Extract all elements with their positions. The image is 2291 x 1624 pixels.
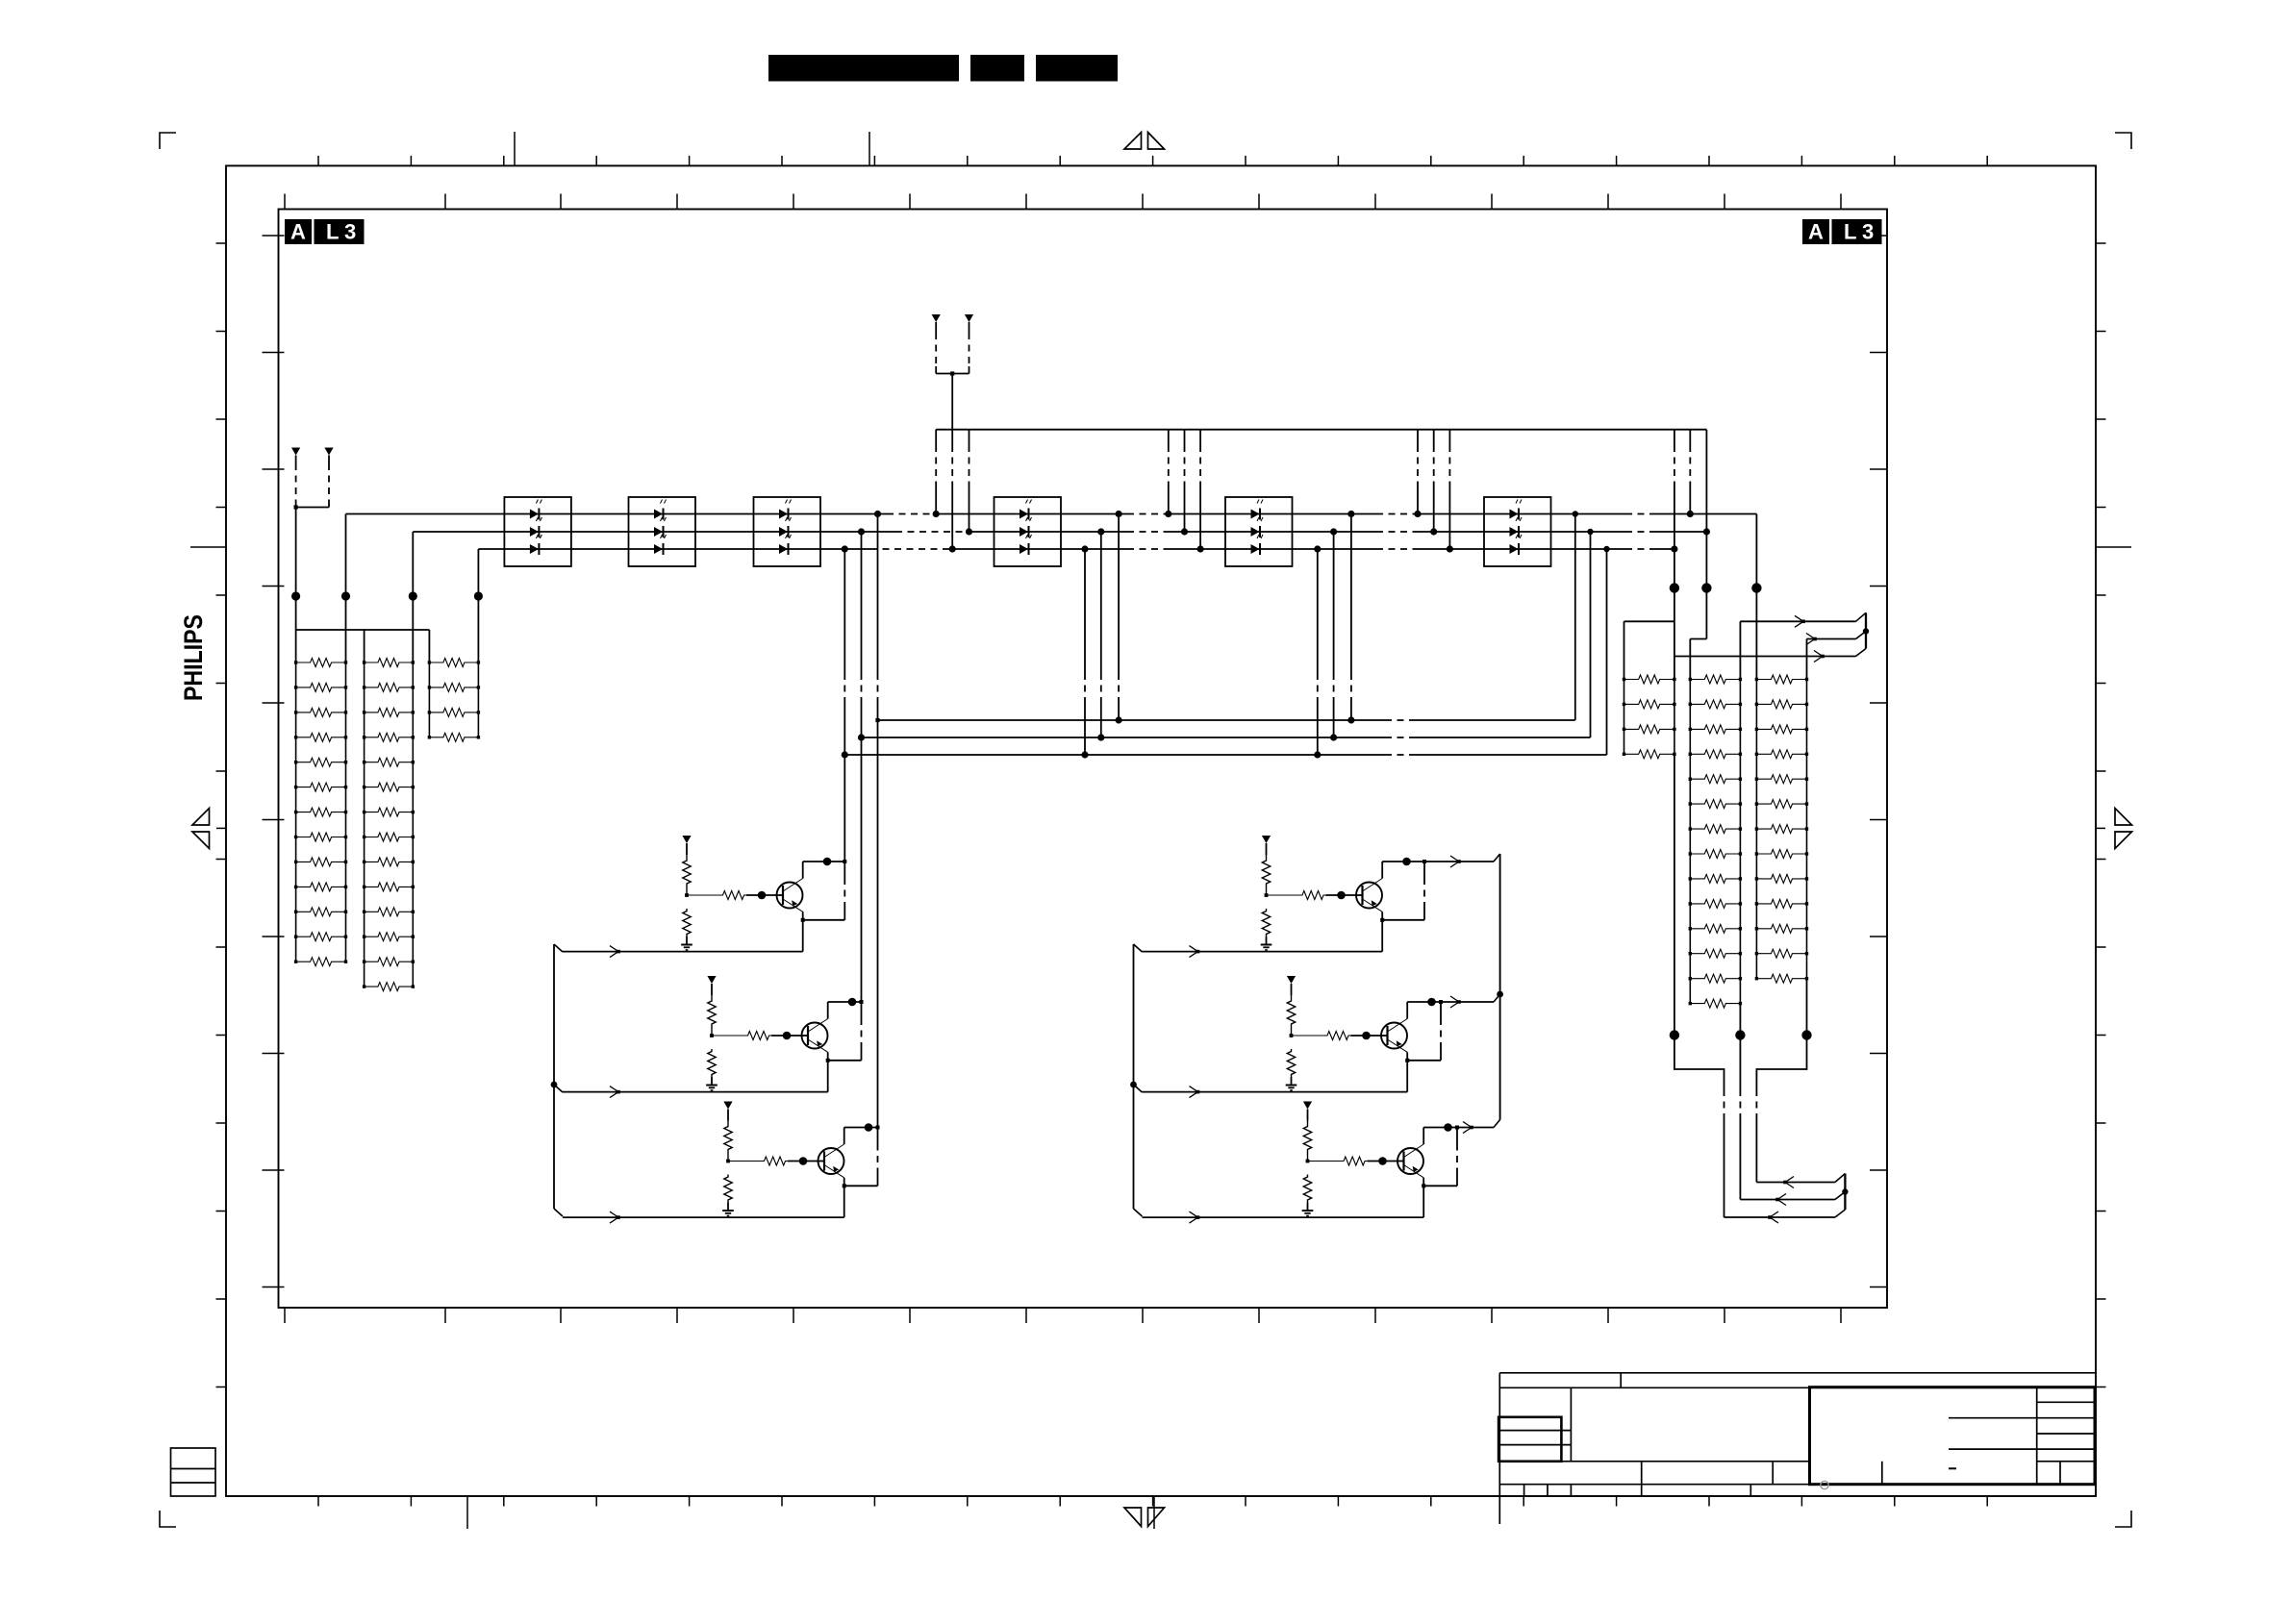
inner frame bottom ticks — [285, 1308, 1841, 1323]
transistor (NPN) — [802, 1023, 828, 1049]
base series resistor — [1267, 894, 1300, 896]
diode block D4 (3 series diodes) — [994, 497, 1062, 566]
right resistor column B (14 resistors) — [1689, 680, 1691, 1004]
svg-text:L: L — [1844, 220, 1856, 244]
svg-text:L: L — [326, 220, 339, 244]
diode block D2 (3 series diodes) — [629, 497, 696, 566]
registration triangles bottom centre — [1124, 1508, 1142, 1527]
right bank col C feed — [1755, 514, 1757, 680]
title block bottom row dividers — [1523, 1485, 1525, 1496]
bias resistor lower — [708, 1049, 716, 1077]
right bank rail A-right down to bottom — [1674, 754, 1675, 1035]
svg-text:3: 3 — [344, 220, 356, 244]
bus dashed section below collector — [843, 862, 845, 878]
header redaction bar 2 — [970, 55, 1024, 82]
base series resistor — [687, 894, 720, 896]
bus end drop to row wires right — [1674, 430, 1675, 445]
svg-text:3: 3 — [1862, 220, 1874, 244]
svg-text:PHILIPS: PHILIPS — [179, 614, 208, 701]
bottom output wire 1 with arrow — [1756, 1182, 1835, 1184]
bus link to emitter — [828, 1060, 862, 1062]
inner frame right ticks — [1870, 236, 1887, 1287]
wire base node to transistor — [1326, 894, 1357, 896]
emitter wire down — [802, 912, 804, 951]
base series resistor — [1308, 1161, 1342, 1162]
bus dashed section below collector — [877, 1128, 879, 1144]
outer frame bottom fold marks — [466, 1496, 468, 1529]
outer frame left ruler ticks — [216, 243, 227, 1387]
supply arrow terminal — [723, 1102, 732, 1110]
bias resistor lower — [1287, 1049, 1295, 1077]
right resistor column C (13 resistors) — [1755, 680, 1757, 979]
corner mark top-left — [160, 133, 176, 149]
svg-text:A: A — [1808, 220, 1824, 244]
wire joining top supply arrows — [936, 373, 969, 375]
row wire 3 (bottom) — [478, 548, 870, 550]
grid label AL3 top-right — [1802, 219, 1829, 244]
mid wire M2 — [862, 737, 1386, 738]
right group collector out wires to collect bus — [1424, 861, 1494, 862]
grid label AL3 top-left — [285, 219, 312, 244]
title block table — [1499, 1372, 2096, 1374]
title block right revision column — [2036, 1387, 2038, 1485]
diode block D3 (3 series diodes) — [754, 497, 821, 566]
transistor (NPN) — [1381, 1023, 1407, 1049]
collector wire to bus — [802, 862, 804, 879]
right bank bottom junction dots — [1670, 1030, 1679, 1039]
corner mark top-right — [2115, 133, 2131, 149]
diode block D1 (3 series diodes) — [504, 497, 571, 566]
mid wire M1 — [878, 719, 1386, 721]
outer frame left centre tick — [216, 827, 226, 829]
ground symbol — [711, 1077, 713, 1084]
supply arrow terminal — [682, 836, 691, 843]
right bank big junction dots — [1670, 583, 1679, 592]
registration triangles right middle — [2115, 809, 2132, 826]
outer frame right ruler ticks — [2096, 243, 2106, 1387]
bias resistor upper — [708, 995, 716, 1030]
inner frame left ticks — [263, 236, 285, 1287]
bus dashed section below collector — [1440, 1002, 1442, 1018]
bus dashed section below collector — [1423, 862, 1425, 878]
ground symbol — [686, 937, 688, 943]
base series resistor — [728, 1161, 762, 1162]
bottom output wire 2 with arrow — [1740, 1199, 1835, 1201]
emitter wire down — [1381, 912, 1383, 951]
bus drop group 3 (dashed sections) — [1417, 430, 1419, 445]
left gathering bracket — [553, 944, 555, 1209]
ground symbol — [727, 1203, 729, 1210]
collect bus vertical — [1499, 854, 1501, 1120]
transistor (NPN) — [1397, 1148, 1423, 1174]
emitter output wire — [563, 1091, 828, 1093]
row wire 2 (middle) — [413, 531, 895, 533]
mid wire M3 — [844, 754, 1385, 756]
right bank rail C-right down to bottom — [1806, 979, 1808, 1036]
output wire W2 with arrow — [1807, 638, 1856, 640]
wire base node to transistor — [771, 1035, 802, 1037]
gathering chevron bottom right — [1835, 1174, 1846, 1183]
corner mark bottom-right — [2115, 1511, 2131, 1527]
right gathering bracket — [1133, 944, 1135, 1209]
left resistor column 3 (4 resistors) — [428, 662, 430, 737]
corner mark bottom-left — [160, 1511, 176, 1527]
wire base node to transistor — [746, 894, 777, 896]
bottom drop col A (dashed section) — [1674, 1036, 1725, 1090]
bus dashed section below collector — [861, 1002, 863, 1018]
registration triangles top centre — [1124, 133, 1142, 150]
outer frame right centre tick — [2096, 827, 2105, 829]
left bus drops to mid wires and on to transistors (dashed sections) — [843, 549, 845, 673]
emitter output wire — [563, 951, 803, 953]
bottom drop col C (dashed section) — [1756, 1036, 1806, 1090]
header redaction bar 1 — [768, 55, 959, 82]
bus link to emitter — [803, 919, 845, 921]
transistor (NPN) — [818, 1148, 844, 1174]
emitter output wire — [563, 1216, 844, 1218]
bias resistor lower — [1303, 1175, 1311, 1203]
header redaction bar 3 — [1036, 55, 1118, 82]
output wire W3 with arrow — [1674, 656, 1856, 658]
bus link to emitter — [1382, 919, 1424, 921]
right bank col B feed jog — [1705, 588, 1707, 639]
outer frame left fold mark — [190, 546, 226, 548]
inner frame top ticks — [285, 194, 1841, 210]
base series resistor — [1292, 1035, 1325, 1037]
riser wire row2 to M2 — [1590, 532, 1592, 737]
bottom drop col B (dashed section) — [1739, 1036, 1741, 1090]
wire joining left input arrows — [296, 507, 329, 509]
input terminal arrows left (dashed leads) — [291, 448, 300, 456]
title block dash mark — [1949, 1467, 1956, 1469]
bus link to emitter — [1423, 1185, 1457, 1187]
registration triangles left middle — [192, 809, 210, 826]
bus drop group 1 (dashed sections) — [935, 430, 937, 445]
outer frame right fold mark — [2096, 546, 2131, 548]
wire left input down to resistor bank — [295, 508, 297, 631]
bus dashed section below collector — [1456, 1128, 1458, 1144]
supply arrow terminal — [1303, 1102, 1312, 1110]
bias resistor upper — [1287, 995, 1295, 1030]
supply terminal arrows top (dashed leads) — [932, 314, 941, 322]
emitter output wire — [1143, 951, 1383, 953]
left resistor bank feed wires — [345, 514, 347, 663]
top distribution bus wire — [936, 429, 1706, 431]
transistor (NPN) — [777, 883, 803, 909]
left resistor column 1 (13 resistors) — [295, 662, 297, 962]
supply arrow terminal — [707, 976, 716, 984]
bus link to emitter — [844, 1185, 878, 1187]
supply arrow terminal — [1287, 976, 1296, 984]
bias resistor lower — [1262, 909, 1270, 937]
title block bold drawing-number box — [1810, 1387, 2096, 1485]
output wire W1 with arrow — [1740, 620, 1855, 622]
sheet index box bottom-left — [171, 1448, 216, 1496]
collector wire to bus — [1381, 862, 1383, 879]
bias resistor upper — [1262, 855, 1270, 889]
bus link to emitter — [1407, 1060, 1441, 1062]
right bank rail B-right down to bottom — [1739, 1004, 1741, 1036]
bottom output wire 3 with arrow — [1725, 1216, 1835, 1218]
wire base node to transistor — [788, 1161, 818, 1162]
emitter output wire — [1143, 1216, 1424, 1218]
title block left bold box — [1498, 1417, 1561, 1462]
outer frame bottom ruler ticks — [318, 1496, 1987, 1507]
emitter wire down — [827, 1052, 829, 1091]
collector wire to bus — [843, 1128, 845, 1145]
svg-text:A: A — [290, 220, 306, 244]
centre drops to mid wires (dashed sections) — [1084, 549, 1086, 673]
bias resistor upper — [683, 855, 691, 889]
emitter wire down — [1422, 1178, 1424, 1217]
left bank top link wire — [296, 629, 430, 631]
emitter wire down — [1406, 1052, 1408, 1091]
collector wire to bus — [1422, 1128, 1424, 1145]
right resistor column A (4 resistors) — [1624, 675, 1674, 684]
ground symbol — [1266, 937, 1268, 943]
outer frame top fold marks — [514, 132, 516, 165]
base series resistor — [712, 1035, 745, 1037]
wire base node to transistor — [1368, 1161, 1398, 1162]
diode block D6 (3 series diodes) — [1484, 497, 1551, 566]
outer border frame — [226, 165, 2096, 1496]
riser wire row3 to M3 — [1606, 549, 1608, 755]
bias resistor lower — [724, 1175, 732, 1203]
supply arrow terminal — [1262, 836, 1271, 843]
emitter output wire — [1143, 1091, 1408, 1093]
bias resistor upper — [724, 1121, 732, 1156]
wire from top supply to bus — [951, 374, 953, 430]
ground symbol — [1307, 1203, 1309, 1210]
right drops to mid wires (dashed sections) — [1317, 549, 1319, 673]
gathering chevron top right — [1856, 612, 1867, 621]
outer frame top ruler ticks — [318, 156, 1987, 166]
bias resistor lower — [683, 909, 691, 937]
riser wire row1 to M1 — [1574, 514, 1576, 721]
emitter wire down — [843, 1178, 845, 1217]
right bank col A feed jog — [1674, 588, 1675, 622]
ground symbol — [1291, 1077, 1293, 1084]
inner border frame — [279, 210, 1888, 1309]
diode block D5 (3 series diodes) — [1225, 497, 1293, 566]
title block circle mark — [1821, 1481, 1828, 1488]
bus drop group 2 (dashed sections) — [1168, 430, 1170, 445]
collector wire to bus — [1406, 1002, 1408, 1019]
bias resistor upper — [1303, 1121, 1311, 1156]
row wire 1 (top) — [346, 513, 888, 515]
transistor (NPN) — [1356, 883, 1382, 909]
left resistor column 2 (14 resistors) — [364, 662, 365, 987]
collector wire to bus — [827, 1002, 829, 1019]
wire base node to transistor — [1351, 1035, 1382, 1037]
